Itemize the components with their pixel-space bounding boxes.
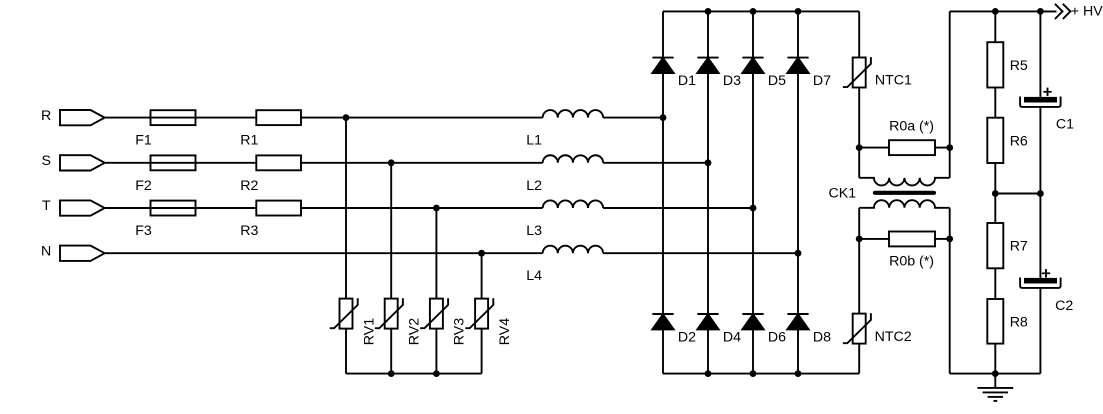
wire D5 column top xyxy=(752,11,754,57)
input terminal N xyxy=(60,246,105,261)
svg-text:R8: R8 xyxy=(1010,314,1028,330)
junction R row / RV1 xyxy=(343,114,350,121)
fuse F3 xyxy=(151,201,196,216)
varistor RV3 xyxy=(430,299,443,329)
svg-text:F1: F1 xyxy=(135,133,152,149)
wire RV2 column lower xyxy=(390,329,392,374)
svg-text:L3: L3 xyxy=(526,223,542,239)
svg-text:T: T xyxy=(42,198,51,214)
wire NTC1 to node A xyxy=(858,88,860,148)
svg-text:C1: C1 xyxy=(1056,117,1074,133)
junction N row / RV4 xyxy=(478,250,485,257)
svg-text:R1: R1 xyxy=(240,133,258,149)
choke CK1 lower winding xyxy=(859,200,950,208)
svg-text:R7: R7 xyxy=(1010,239,1028,255)
wire mid rail to C2 xyxy=(1039,194,1041,278)
svg-text:D3: D3 xyxy=(723,73,741,89)
thermistor NTC2 xyxy=(853,314,866,344)
wire node C to R0b xyxy=(859,238,889,240)
choke CK1 upper winding xyxy=(859,178,950,186)
resistor R5 xyxy=(987,42,1003,87)
svg-text:L1: L1 xyxy=(526,133,542,149)
diode D3 xyxy=(697,57,718,59)
svg-text:R3: R3 xyxy=(240,223,258,239)
svg-text:NTC2: NTC2 xyxy=(875,329,912,345)
wire R8 to ground rail xyxy=(994,344,996,374)
inductor L2 xyxy=(543,155,603,163)
thermistor NTC1 xyxy=(853,58,866,88)
wire S row left xyxy=(105,162,543,164)
svg-text:S: S xyxy=(42,153,51,169)
resistor R0b xyxy=(889,232,935,247)
input terminal T xyxy=(60,200,105,215)
wire D3 column top xyxy=(707,11,709,57)
wire C1 column top xyxy=(1039,11,1041,97)
wire bottom DC rail left xyxy=(663,373,859,375)
wire T row down to D6 xyxy=(752,208,754,314)
resistor R2 xyxy=(256,155,301,170)
choke CK1 core xyxy=(875,191,934,195)
wire N row right of L4 xyxy=(603,252,798,254)
wire S row down to D4 xyxy=(707,163,709,314)
diode D6 xyxy=(742,313,763,315)
node D xyxy=(946,236,953,243)
resistor R8 xyxy=(987,299,1003,344)
resistor R7 xyxy=(987,223,1003,268)
junction top rail R5 xyxy=(992,8,999,15)
wire C1 to mid rail xyxy=(1039,107,1041,194)
wire S row right of L2 xyxy=(603,162,708,164)
node A xyxy=(856,144,863,151)
ground xyxy=(994,374,996,388)
capacitor C1 xyxy=(1024,97,1057,103)
svg-text:D4: D4 xyxy=(723,329,741,345)
input terminal S xyxy=(60,155,105,170)
junction top rail D5 xyxy=(750,8,757,15)
svg-text:C2: C2 xyxy=(1055,298,1073,314)
svg-text:R5: R5 xyxy=(1010,58,1028,74)
resistor R6 xyxy=(987,118,1003,163)
diode D5 xyxy=(742,57,763,59)
diode D4 xyxy=(697,313,718,315)
svg-text:D2: D2 xyxy=(678,329,696,345)
wire C2 to ground rail xyxy=(1039,288,1041,374)
wire HV column upper (node B to top rail) xyxy=(949,11,951,147)
node B xyxy=(946,144,953,151)
wire varistor common bus xyxy=(346,373,482,375)
svg-text:D1: D1 xyxy=(678,73,696,89)
junction T row / D5 column xyxy=(750,205,757,212)
wire HV output stub xyxy=(1040,10,1056,12)
wire lower winding right to node D xyxy=(949,208,951,239)
svg-text:RV4: RV4 xyxy=(497,318,513,345)
wire R0b to node D xyxy=(935,238,950,240)
wire N row down to D8 xyxy=(797,253,799,314)
wire RV2 column upper xyxy=(390,163,392,299)
diode D7 xyxy=(787,57,808,59)
wire R7 to R8 xyxy=(994,268,996,299)
wire D7 column top xyxy=(797,11,799,57)
wire RV1 column lower xyxy=(345,329,347,374)
wire R row left xyxy=(105,117,543,119)
wire ground rail right xyxy=(950,373,1041,375)
junction S row / RV2 xyxy=(388,159,395,166)
svg-text:R0a (*): R0a (*) xyxy=(889,118,934,134)
junction N row / D7 column xyxy=(795,250,802,257)
fuse F1 xyxy=(151,110,196,125)
wire RV3 column upper xyxy=(435,208,437,299)
wire N row left xyxy=(105,252,543,254)
svg-text:R: R xyxy=(41,108,51,124)
svg-text:L4: L4 xyxy=(526,268,542,284)
junction RV2 bus xyxy=(388,370,395,377)
svg-text:CK1: CK1 xyxy=(829,186,857,202)
junction S row / D3 column xyxy=(705,159,712,166)
wire NTC1 column top xyxy=(858,11,860,57)
wire RV4 column upper xyxy=(481,253,483,298)
junction top rail D7 xyxy=(795,8,802,15)
svg-text:D5: D5 xyxy=(768,73,786,89)
wire node B down to winding xyxy=(949,148,951,178)
wire node A down to winding xyxy=(858,148,860,178)
wire D4 column bottom xyxy=(707,329,709,373)
junction top rail D3 xyxy=(705,8,712,15)
svg-text:D6: D6 xyxy=(768,329,786,345)
junction bottom rail D8 xyxy=(795,370,802,377)
wire top DC rail right xyxy=(950,10,1057,12)
resistor R0a xyxy=(889,140,935,155)
wire node D down to ground rail xyxy=(949,239,951,374)
svg-text:N: N xyxy=(41,243,51,259)
node C xyxy=(856,236,863,243)
wire D1 to R row xyxy=(662,73,664,118)
wire R row right of L1 xyxy=(603,117,663,119)
svg-text:D8: D8 xyxy=(813,329,831,345)
wire D8 column bottom xyxy=(797,329,799,373)
svg-text:D7: D7 xyxy=(813,73,831,89)
inductor L4 xyxy=(543,246,603,254)
diode D2 xyxy=(652,313,673,315)
wire R6 to mid rail xyxy=(994,163,996,194)
resistor R1 xyxy=(256,110,301,125)
wire R5 to R6 xyxy=(994,88,996,118)
varistor RV4 xyxy=(475,299,488,329)
wire T row right of L3 xyxy=(603,207,753,209)
capacitor C2 xyxy=(1024,278,1057,284)
wire D2 column bottom xyxy=(662,329,664,373)
junction T row / RV3 xyxy=(433,205,440,212)
inductor L1 xyxy=(543,110,603,118)
junction mid rail R6/R7 xyxy=(992,190,999,197)
svg-text:+ HV: + HV xyxy=(1071,4,1103,20)
wire RV4 column lower xyxy=(481,329,483,374)
wire D5 to T row xyxy=(752,73,754,208)
HV output connector chevrons xyxy=(1055,4,1071,19)
junction ground rail R8 xyxy=(992,370,999,377)
diode D8 xyxy=(787,313,808,315)
svg-text:F2: F2 xyxy=(135,178,152,194)
inductor L3 xyxy=(543,200,603,208)
svg-text:NTC1: NTC1 xyxy=(875,72,912,88)
wire D1 column top xyxy=(662,11,664,57)
junction mid rail C1/C2 xyxy=(1037,190,1044,197)
svg-text:R6: R6 xyxy=(1010,133,1028,149)
wire RV3 column lower xyxy=(435,329,437,374)
svg-text:RV1: RV1 xyxy=(361,318,377,345)
wire NTC2 to bottom rail xyxy=(858,344,860,374)
input terminal R xyxy=(60,110,105,125)
svg-text:R2: R2 xyxy=(240,178,258,194)
junction top rail C1 xyxy=(1037,8,1044,15)
wire mid rail to R7 xyxy=(994,194,996,224)
wire lower winding left to node C xyxy=(858,208,860,239)
wire top DC rail left xyxy=(663,10,859,12)
wire mid rail xyxy=(995,193,1040,195)
wire D7 to N row xyxy=(797,73,799,253)
junction RV3 bus xyxy=(433,370,440,377)
wire node A to R0a xyxy=(859,147,889,149)
wire node C down to NTC2 xyxy=(858,239,860,314)
wire T row left xyxy=(105,207,543,209)
wire R5 column top xyxy=(994,11,996,42)
wire D6 column bottom xyxy=(752,329,754,373)
varistor RV2 xyxy=(385,299,398,329)
svg-text:RV2: RV2 xyxy=(407,318,423,345)
svg-text:R0b (*): R0b (*) xyxy=(889,254,934,270)
wire D3 to S row xyxy=(707,73,709,163)
fuse F2 xyxy=(151,155,196,170)
svg-text:RV3: RV3 xyxy=(452,318,468,345)
wire RV1 column upper xyxy=(345,118,347,299)
resistor R3 xyxy=(256,201,301,216)
wire R0a to node B xyxy=(935,147,950,149)
junction R row / D1 column xyxy=(660,114,667,121)
wire R row down to D2 xyxy=(662,118,664,314)
diode D1 xyxy=(652,57,673,59)
svg-text:L2: L2 xyxy=(526,178,542,194)
junction bottom rail D6 xyxy=(750,370,757,377)
junction bottom rail D4 xyxy=(705,370,712,377)
varistor RV1 xyxy=(340,299,353,329)
svg-text:F3: F3 xyxy=(135,223,152,239)
